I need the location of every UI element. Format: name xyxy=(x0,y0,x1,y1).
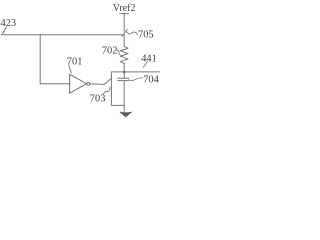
capacitor 704 bottom lead xyxy=(123,81,125,112)
wire node horizontal 441 xyxy=(111,71,160,73)
svg-text:423: 423 xyxy=(1,18,17,29)
op-amp 701 triangle xyxy=(70,74,87,93)
svg-text:Vref2: Vref2 xyxy=(113,3,136,14)
svg-text:705: 705 xyxy=(138,30,154,41)
resistor 702 bottom lead xyxy=(123,63,125,72)
Vref2 terminal bar xyxy=(120,13,129,15)
wire Vref2 vertical xyxy=(123,14,125,32)
wire bottom horizontal xyxy=(111,104,124,106)
resistor 702 leader squiggle xyxy=(116,50,123,56)
capacitor 704 top lead xyxy=(123,72,125,78)
svg-text:702: 702 xyxy=(102,46,118,57)
node 441 leader slash xyxy=(143,61,147,67)
wire right stub vertical xyxy=(110,72,112,106)
switch 705 blade xyxy=(122,30,127,37)
node 423 leader slash xyxy=(3,27,7,34)
switch 705 leader squiggle xyxy=(127,32,138,34)
wire left vertical to amp input xyxy=(39,35,41,84)
wire top horizontal xyxy=(2,34,124,36)
resistor 702 top lead xyxy=(123,35,125,46)
resistor 702 zigzag xyxy=(120,46,128,63)
node junction dot xyxy=(123,71,126,74)
svg-text:703: 703 xyxy=(90,94,106,105)
switch 703 blade xyxy=(104,79,111,85)
capacitor 704 bottom plate xyxy=(118,80,129,82)
switch 703 leader squiggle xyxy=(103,88,110,95)
wire amp input horizontal xyxy=(40,83,69,85)
op-amp 701 output bubble xyxy=(87,82,90,85)
ground symbol xyxy=(120,112,132,117)
capacitor 704 top plate xyxy=(118,77,129,79)
svg-text:441: 441 xyxy=(141,54,157,65)
wire amp output xyxy=(90,83,105,86)
svg-text:704: 704 xyxy=(143,75,159,86)
op-amp 701 leader line xyxy=(69,65,72,73)
capacitor 704 leader squiggle xyxy=(129,78,143,81)
